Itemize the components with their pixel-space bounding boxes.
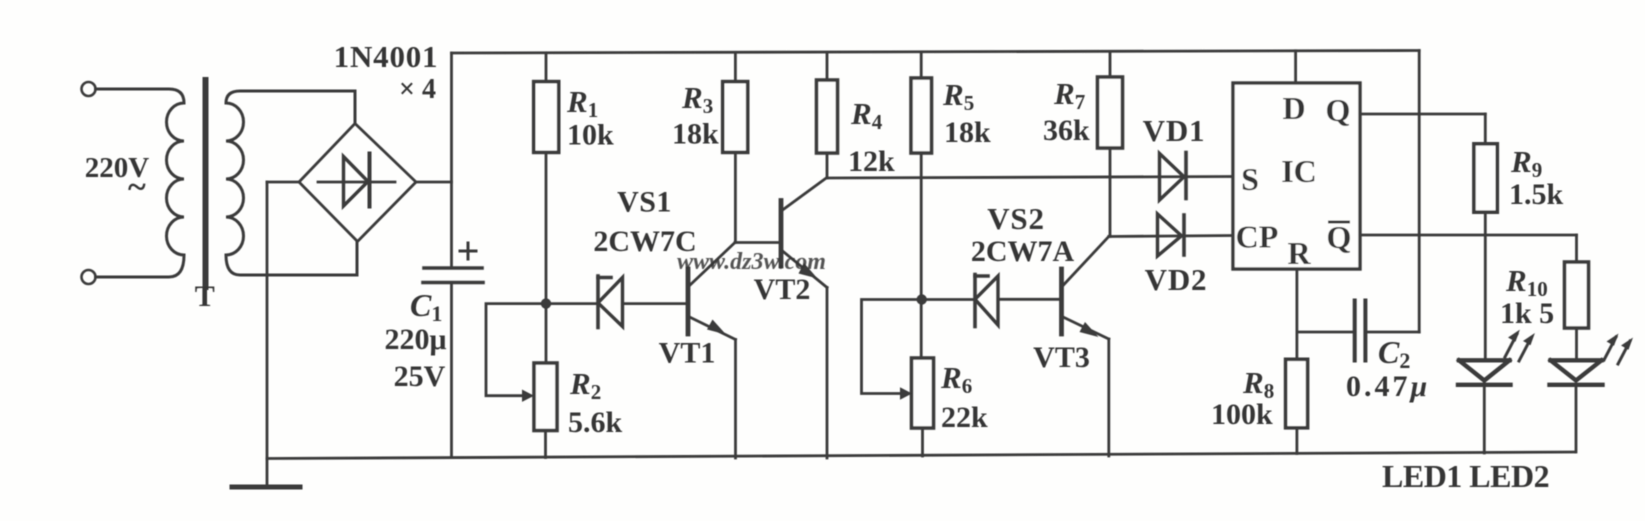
svg-text:1k 5: 1k 5: [1500, 297, 1554, 330]
svg-text:VT3: VT3: [1033, 341, 1090, 374]
svg-text:www.dz3w.com: www.dz3w.com: [677, 249, 826, 275]
svg-text:D: D: [1282, 90, 1305, 126]
svg-text:220μ: 220μ: [384, 323, 446, 356]
svg-text:100k: 100k: [1211, 398, 1273, 431]
svg-text:~: ~: [128, 169, 146, 206]
svg-text:LED1 LED2: LED1 LED2: [1382, 458, 1549, 494]
svg-text:VS2: VS2: [987, 201, 1045, 236]
svg-text:T: T: [195, 280, 215, 313]
svg-text:Q: Q: [1326, 92, 1351, 128]
svg-text:1.5k: 1.5k: [1509, 178, 1564, 211]
svg-text:18k: 18k: [672, 118, 719, 151]
svg-text:18k: 18k: [944, 116, 991, 149]
svg-text:10k: 10k: [567, 119, 614, 152]
svg-text:× 4: × 4: [399, 74, 436, 105]
svg-text:S: S: [1241, 161, 1259, 197]
svg-text:VT2: VT2: [754, 273, 811, 306]
svg-text:1N4001: 1N4001: [334, 39, 439, 74]
svg-text:22k: 22k: [941, 401, 988, 434]
svg-text:36k: 36k: [1043, 114, 1090, 147]
svg-text:IC: IC: [1281, 153, 1317, 189]
svg-text:VT1: VT1: [659, 337, 716, 370]
svg-text:VS1: VS1: [617, 186, 672, 219]
svg-text:5.6k: 5.6k: [568, 406, 623, 439]
svg-text:VD2: VD2: [1145, 262, 1208, 297]
svg-text:12k: 12k: [848, 145, 895, 178]
svg-text:25V: 25V: [394, 360, 446, 393]
svg-text:CP: CP: [1236, 219, 1279, 255]
svg-text:Q: Q: [1327, 219, 1352, 255]
svg-text:VD1: VD1: [1143, 113, 1206, 148]
svg-text:2CW7A: 2CW7A: [971, 235, 1075, 268]
svg-text:R: R: [1287, 235, 1311, 271]
svg-text:0.47μ: 0.47μ: [1346, 370, 1430, 403]
